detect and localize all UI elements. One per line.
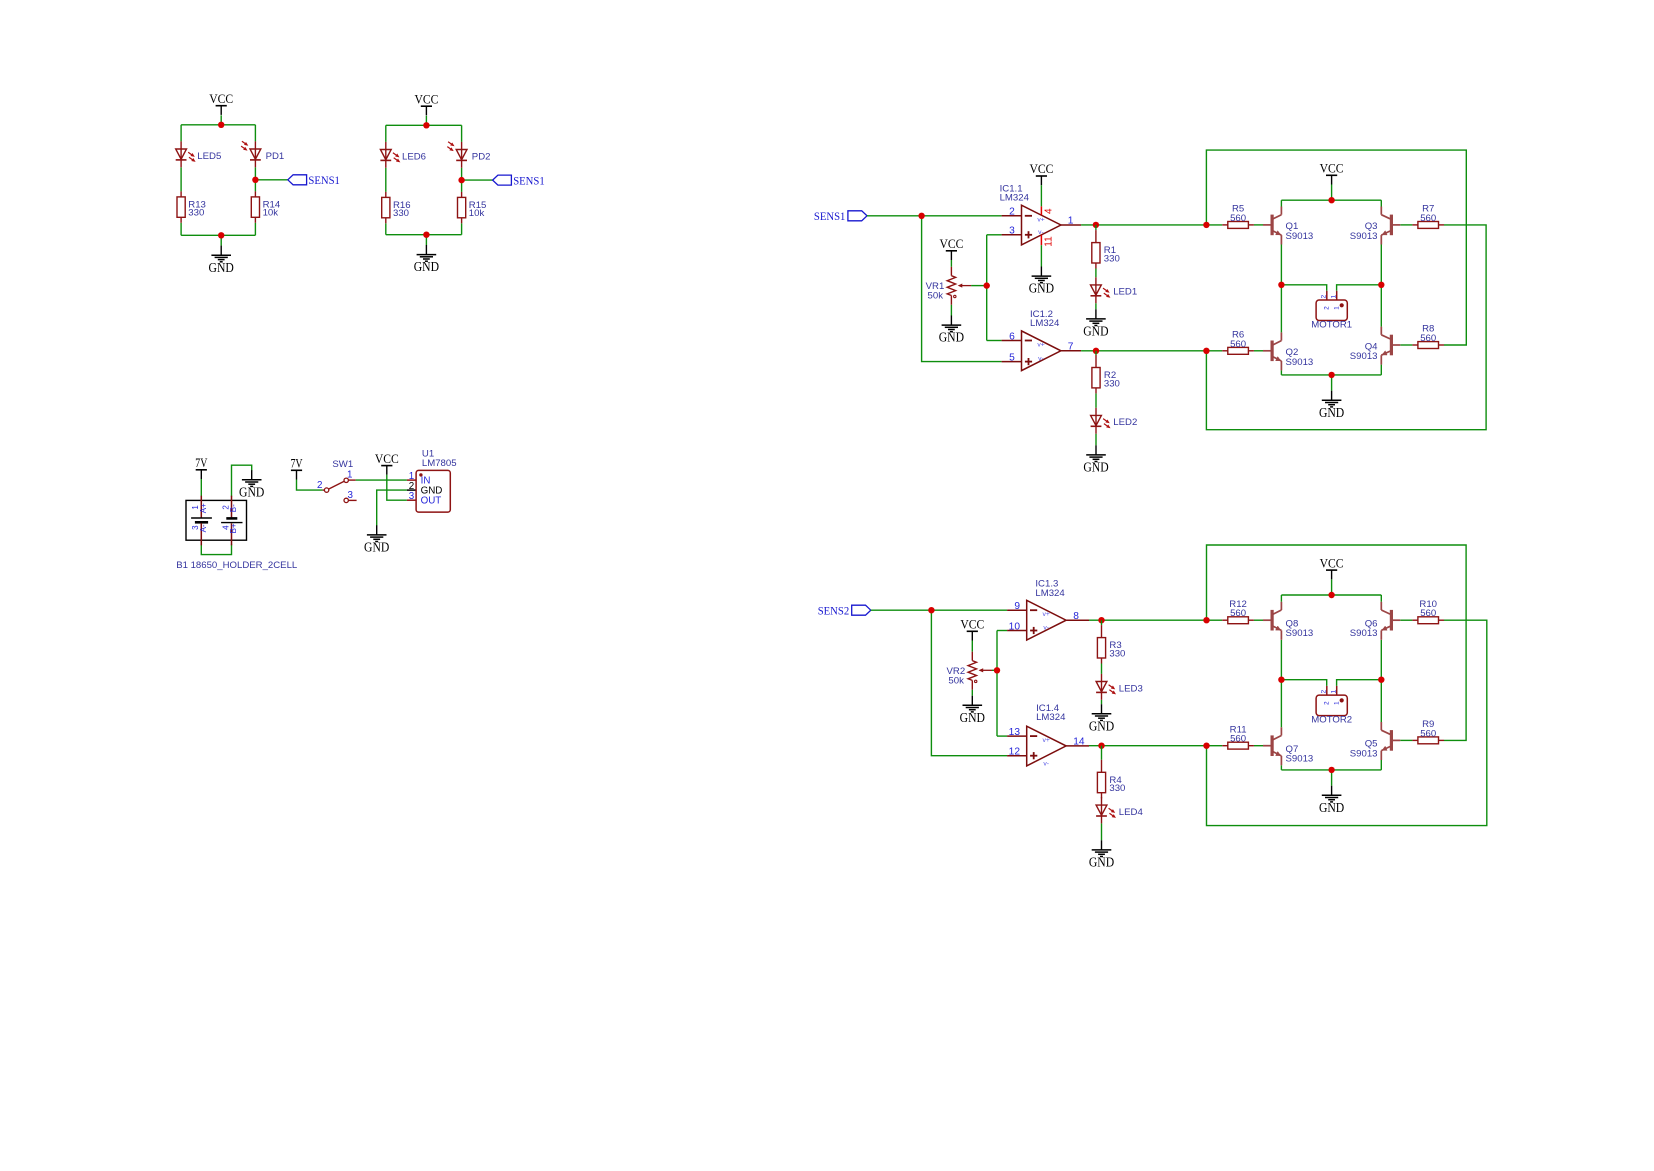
wire base connections (1207, 619, 1223, 621)
transistor Q1 (S9013) (1263, 207, 1281, 245)
svg-text:1: 1 (1333, 701, 1340, 705)
transistor Q4 (S9013) (1381, 327, 1400, 365)
svg-text:560: 560 (1420, 333, 1436, 344)
net label SENS2 (comparator) (818, 604, 871, 618)
wire mid rail right (1337, 680, 1382, 686)
svg-text:VCC: VCC (939, 236, 963, 251)
wire right branch (254, 125, 256, 142)
wire bottom loop (1207, 620, 1487, 825)
junction sensor node (252, 177, 258, 183)
power symbol VCC (bridge1) (1320, 161, 1344, 185)
wire (386, 124, 462, 126)
wire pin13 (997, 735, 1007, 737)
net label SENS1 (comparator) (814, 209, 867, 223)
svg-text:VCC: VCC (209, 91, 233, 106)
svg-text:LM324: LM324 (1036, 712, 1066, 723)
svg-text:10k: 10k (469, 208, 485, 219)
wire wiper to VR1 (971, 285, 987, 287)
svg-text:9: 9 (1014, 601, 1020, 612)
svg-text:A-: A- (199, 524, 208, 532)
wire to SENS flag (462, 179, 493, 181)
svg-text:1: 1 (1333, 306, 1340, 310)
wire left branch (385, 125, 387, 142)
svg-text:S9013: S9013 (1286, 754, 1314, 765)
op-amp IC1.1 (LM324) (1022, 205, 1061, 245)
ground (LED4) (1089, 840, 1114, 869)
wire output to R4 chain (1101, 746, 1103, 760)
svg-text:13: 13 (1009, 727, 1021, 738)
svg-text:SENS1: SENS1 (814, 209, 846, 223)
LED LED5 (176, 141, 195, 167)
power symbol 7V (battery) (195, 455, 208, 479)
resistor R2 (1092, 355, 1100, 393)
ground (209, 246, 234, 275)
svg-text:PD2: PD2 (472, 151, 491, 162)
svg-text:10: 10 (1009, 621, 1021, 632)
junction left/bottom row (1203, 743, 1209, 749)
svg-text:2: 2 (1324, 306, 1331, 310)
transistor Q3 (S9013) (1381, 207, 1400, 245)
resistor R8 (1412, 342, 1444, 349)
wire left branch (180, 125, 182, 142)
svg-text:v+: v+ (1037, 217, 1044, 224)
ground (IC1.1) (1029, 267, 1054, 296)
svg-text:GND: GND (939, 330, 964, 345)
svg-text:GND: GND (239, 484, 264, 499)
wire pin3 to pin4 bottom link (201, 545, 231, 555)
net label SENS1 (sensor 2) (493, 173, 545, 187)
wire VCC to VR1 (950, 260, 952, 267)
wire VCC to VR2 (971, 641, 973, 652)
switch SW1 (323, 478, 357, 503)
photodiode PD2 (447, 142, 467, 168)
svg-text:330: 330 (188, 208, 204, 219)
node VCC rail wire (425, 116, 427, 126)
svg-text:LED4: LED4 (1119, 807, 1144, 818)
wire SENS2 to pin9 (871, 609, 1007, 611)
resistor R7 (1412, 222, 1444, 229)
wire U1 GND pin to ground (377, 490, 407, 525)
svg-text:S9013: S9013 (1350, 628, 1378, 639)
svg-text:6: 6 (1009, 331, 1015, 342)
op-amp IC1.2 (LM324) (1022, 331, 1061, 371)
wire 7V to SW1 pin2 (297, 480, 323, 491)
ground (battery) (239, 470, 264, 499)
resistor R14 (251, 191, 259, 222)
svg-text:3: 3 (348, 490, 354, 501)
resistor R1 (1092, 230, 1100, 268)
junction GND rail (1328, 372, 1334, 378)
svg-text:GND: GND (1083, 324, 1108, 339)
wire VCC to IC1.1 V+ (1040, 185, 1042, 206)
svg-text:v-: v- (1043, 625, 1049, 632)
resistor R5 (1222, 222, 1254, 229)
junction left/bottom row (1203, 348, 1209, 354)
junction output14/R4 (1098, 743, 1104, 749)
junction VCC rail (1328, 592, 1334, 598)
node VCC rail wire (220, 115, 222, 125)
svg-text:LED6: LED6 (402, 151, 426, 162)
svg-text:VCC: VCC (1029, 161, 1053, 176)
wire bottom rail (1281, 769, 1381, 771)
battery holder B1 body (186, 500, 247, 540)
junction motor right (1378, 282, 1384, 288)
svg-text:4: 4 (1044, 208, 1055, 214)
junction motor right (1378, 677, 1384, 683)
wire SENS2 down to pin12 (931, 610, 1007, 756)
ground (VR2) (960, 696, 985, 725)
svg-text:LED2: LED2 (1113, 417, 1137, 428)
transistor Q5 (S9013) (1381, 722, 1400, 760)
svg-text:2: 2 (317, 480, 322, 491)
svg-text:v-: v- (1038, 229, 1044, 236)
wire top loop (1207, 545, 1467, 740)
svg-text:SENS1: SENS1 (308, 173, 340, 187)
svg-text:VCC: VCC (414, 91, 438, 106)
junction VCC/top rail (218, 122, 224, 128)
junction VR1 wiper net (984, 282, 990, 288)
svg-text:10k: 10k (263, 208, 279, 219)
svg-text:VCC: VCC (960, 617, 984, 632)
wire output to R1 chain (1095, 225, 1097, 230)
svg-text:GND: GND (209, 260, 234, 275)
svg-text:560: 560 (1230, 339, 1246, 350)
wire top loop (1206, 150, 1466, 345)
svg-text:LED5: LED5 (197, 151, 221, 162)
power symbol VCC (regulator) (375, 451, 399, 475)
svg-text:2: 2 (1320, 690, 1327, 694)
svg-text:330: 330 (1104, 378, 1120, 389)
power symbol VCC (414, 91, 438, 115)
wire pin10 (997, 630, 1007, 632)
wire GND stem (425, 235, 427, 245)
potentiometer VR1 (947, 267, 971, 305)
svg-text:50k: 50k (928, 290, 944, 301)
wire SENS1 down to pin5 (922, 216, 1002, 362)
svg-text:7V: 7V (195, 455, 208, 470)
svg-text:1: 1 (1330, 690, 1337, 694)
wire output to R3 chain (1101, 620, 1103, 625)
svg-text:S9013: S9013 (1286, 357, 1314, 368)
wire VCC stem (1331, 185, 1333, 201)
power symbol VCC (IC1.1) (1029, 161, 1053, 185)
wire bottom rail (1281, 374, 1381, 376)
svg-text:3: 3 (409, 491, 415, 502)
resistor R6 (1222, 347, 1254, 354)
wire mid rail left (1281, 285, 1326, 291)
wire pin2 to GND (232, 465, 252, 496)
junction SENS1 net (918, 213, 924, 219)
wire pin3 (987, 234, 1002, 236)
wire bottom rail (181, 234, 255, 236)
junction motor left (1278, 282, 1284, 288)
svg-text:2: 2 (1324, 701, 1331, 705)
power symbol VCC (209, 91, 233, 115)
svg-text:VCC: VCC (1320, 555, 1344, 570)
resistor R4 (1097, 760, 1105, 798)
junction bottom rail/GND (423, 232, 429, 238)
junction output8/R3 (1098, 617, 1104, 623)
wire output to R2 chain (1095, 351, 1097, 355)
power pin 4 (red) (1040, 206, 1042, 215)
svg-text:S9013: S9013 (1350, 748, 1378, 759)
resistor R15 (458, 192, 466, 223)
power symbol VCC (VR1) (939, 236, 963, 260)
svg-text:B-: B- (229, 504, 238, 512)
transistor Q7 (S9013) (1263, 727, 1281, 765)
power symbol 7V (switch) (290, 456, 303, 480)
pin stubs IC1.2 (1002, 340, 1022, 342)
svg-text:560: 560 (1420, 213, 1436, 224)
wire output1 net (1081, 224, 1206, 226)
motor MOTOR1 (1311, 291, 1352, 331)
junction SENS2 net (928, 607, 934, 613)
svg-text:3: 3 (1009, 226, 1015, 237)
resistor R11 (1222, 742, 1254, 749)
wire Q collector/emitter links (1280, 200, 1282, 206)
junction motor left (1278, 677, 1284, 683)
svg-text:GND: GND (1089, 855, 1114, 870)
net label SENS1 (sensor 1) (288, 173, 340, 187)
wire Q collector/emitter links (1280, 595, 1282, 602)
battery cell B (221, 496, 242, 546)
junction left/top row (1203, 222, 1209, 228)
junction left/top row (1203, 617, 1209, 623)
svg-text:LM324: LM324 (1035, 588, 1065, 599)
motor MOTOR2 (1311, 686, 1352, 726)
pin stubs IC1.3 (1007, 609, 1027, 611)
svg-text:12: 12 (1009, 747, 1021, 758)
svg-text:v-: v- (1038, 356, 1044, 363)
svg-text:LM324: LM324 (1000, 193, 1030, 204)
svg-text:560: 560 (1420, 608, 1436, 619)
pin stubs IC1.4 (1007, 735, 1027, 737)
svg-text:560: 560 (1230, 608, 1246, 619)
resistor R10 (1412, 617, 1444, 624)
power symbol VCC (VR2) (960, 617, 984, 641)
svg-text:v+: v+ (1043, 737, 1050, 744)
ground (bridge2) (1319, 786, 1344, 815)
junction GND rail (1328, 767, 1334, 773)
svg-text:LED3: LED3 (1119, 683, 1143, 694)
ground (LED2) (1083, 445, 1108, 474)
ground (LED3) (1089, 704, 1114, 733)
svg-text:MOTOR1: MOTOR1 (1311, 320, 1352, 331)
ground (regulator) (364, 525, 389, 554)
svg-text:LM324: LM324 (1030, 318, 1060, 329)
wire SW1 pin1 to U1 IN (356, 479, 407, 481)
junction VCC/top rail (423, 122, 429, 128)
wire VCC to U1 OUT (387, 475, 407, 500)
junction VR2 wiper net (994, 667, 1000, 673)
wire to SENS flag (255, 179, 287, 181)
wire output7 net (1081, 350, 1206, 352)
wire mid rail right (1337, 285, 1382, 291)
svg-text:330: 330 (393, 208, 409, 219)
wire VCC rail (1281, 594, 1381, 596)
svg-text:330: 330 (1109, 648, 1125, 659)
resistor R12 (1222, 617, 1254, 624)
svg-text:GND: GND (414, 259, 439, 274)
svg-text:S9013: S9013 (1286, 231, 1314, 242)
wire GND stem (220, 235, 222, 245)
output pin 1 stub (1061, 224, 1081, 226)
LED LED6 (380, 142, 399, 168)
wire wiper vertical pin10-pin13 (996, 631, 998, 737)
svg-text:v+: v+ (1043, 611, 1050, 618)
ground (414, 245, 439, 274)
junction VCC rail (1328, 197, 1334, 203)
wire mid rail left (1281, 680, 1326, 686)
svg-text:GND: GND (1029, 281, 1054, 296)
svg-text:MOTOR2: MOTOR2 (1311, 715, 1352, 726)
wire VCC stem (1331, 579, 1333, 595)
wire (181, 124, 255, 126)
wire wiper vertical pin3-pin6 (986, 235, 988, 341)
svg-text:VCC: VCC (1320, 161, 1344, 176)
output pin 7 stub (1061, 350, 1081, 352)
wire SENS1 to pin2 (867, 215, 1002, 217)
power symbol VCC (bridge2) (1320, 555, 1344, 579)
resistor R9 (1412, 737, 1444, 744)
junction bottom rail/GND (218, 232, 224, 238)
svg-text:11: 11 (1043, 236, 1054, 247)
svg-text:GND: GND (1089, 718, 1114, 733)
svg-text:B1 18650_HOLDER_2CELL: B1 18650_HOLDER_2CELL (176, 560, 298, 571)
ground (LED1) (1083, 309, 1108, 338)
resistor R16 (382, 192, 390, 223)
output pin 8 stub (1066, 619, 1089, 621)
wire right branch (461, 125, 463, 142)
wire GND stem (1331, 375, 1333, 391)
junction output7/R2 (1093, 348, 1099, 354)
svg-text:A+: A+ (199, 503, 208, 513)
battery cell A (191, 496, 212, 546)
resistor R13 (177, 191, 185, 222)
svg-text:VCC: VCC (375, 451, 399, 466)
wire base connections (1206, 224, 1222, 226)
wire bottom rail (386, 234, 462, 236)
svg-text:1: 1 (1330, 294, 1337, 298)
ground (bridge1) (1319, 391, 1344, 420)
svg-text:LM7805: LM7805 (422, 458, 457, 469)
wire VCC rail (1281, 199, 1381, 201)
potentiometer VR2 (968, 652, 992, 690)
wire GND stem (1331, 770, 1333, 786)
power pin 11 (red) (1040, 235, 1042, 245)
wire pin6 (987, 340, 1002, 342)
svg-text:5: 5 (1009, 352, 1015, 363)
LED LED2 (1091, 408, 1110, 434)
svg-text:v-: v- (1043, 761, 1049, 768)
wire output14 net (1089, 745, 1207, 747)
svg-text:S9013: S9013 (1350, 231, 1378, 242)
op-amp IC1.4 (LM324) (1027, 726, 1066, 767)
svg-text:2: 2 (1009, 207, 1015, 218)
wire bottom loop (1206, 225, 1486, 430)
svg-text:50k: 50k (948, 675, 964, 686)
transistor Q2 (S9013) (1263, 332, 1281, 370)
svg-text:B+: B+ (229, 523, 238, 533)
junction output1/R1 (1093, 222, 1099, 228)
wire VR1 to GND (950, 305, 952, 316)
svg-text:LED1: LED1 (1113, 287, 1137, 298)
LED LED3 (1096, 674, 1115, 700)
svg-text:PD1: PD1 (266, 151, 285, 162)
svg-text:S9013: S9013 (1350, 351, 1378, 362)
regulator U1 LM7805 (407, 470, 450, 512)
resistor R3 (1097, 625, 1105, 663)
svg-text:560: 560 (1420, 728, 1436, 739)
svg-text:1: 1 (347, 470, 352, 481)
ground (VR1) (939, 316, 964, 345)
op-amp IC1.3 (LM324) (1027, 600, 1066, 640)
svg-text:330: 330 (1104, 253, 1120, 264)
svg-text:330: 330 (1109, 783, 1125, 794)
svg-text:SENS1: SENS1 (513, 173, 545, 187)
photodiode PD1 (241, 141, 261, 167)
wire IC1.1 V- to GND (1040, 245, 1042, 266)
LED LED1 (1091, 277, 1110, 303)
output pin 14 stub (1066, 745, 1089, 747)
svg-text:S9013: S9013 (1286, 628, 1314, 639)
wire wiper to VR2 (992, 669, 997, 671)
pin stubs IC1.1 (1002, 215, 1022, 217)
svg-text:560: 560 (1230, 734, 1246, 745)
LED LED4 (1096, 798, 1115, 824)
svg-text:560: 560 (1230, 213, 1246, 224)
wire VR2 to GND (971, 690, 973, 696)
svg-text:2: 2 (1320, 294, 1327, 298)
svg-text:GND: GND (960, 710, 985, 725)
transistor Q8 (S9013) (1263, 602, 1281, 640)
junction sensor node (458, 177, 464, 183)
svg-text:SW1: SW1 (332, 459, 353, 470)
svg-text:GND: GND (1083, 460, 1108, 475)
wire 7V to pin1 (200, 479, 202, 497)
svg-text:OUT: OUT (421, 496, 442, 507)
wire output8 net (1089, 619, 1207, 621)
transistor Q6 (S9013) (1381, 602, 1400, 640)
svg-text:v+: v+ (1037, 341, 1044, 348)
svg-text:SENS2: SENS2 (818, 604, 850, 618)
svg-text:GND: GND (1319, 800, 1344, 815)
svg-text:GND: GND (1319, 405, 1344, 420)
svg-text:7V: 7V (290, 456, 303, 471)
svg-text:GND: GND (364, 540, 389, 555)
